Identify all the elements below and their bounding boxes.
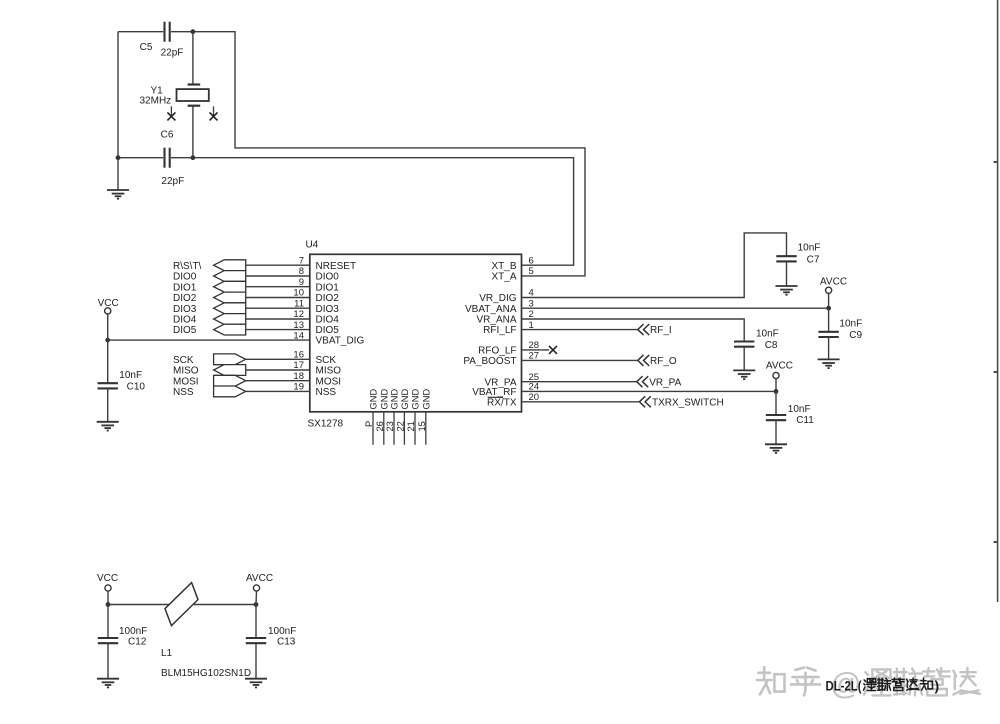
svg-text:100nF: 100nF [268,626,296,637]
svg-text:9: 9 [299,277,304,288]
connector chevron RF_O [638,355,649,366]
svg-text:C7: C7 [807,254,820,265]
svg-text:21: 21 [406,421,416,431]
sheet title cjk char 3 [892,678,904,691]
svg-text:U4: U4 [306,240,319,251]
svg-text:10nF: 10nF [798,242,821,253]
node VCC junction [105,338,110,343]
svg-text:15: 15 [417,421,427,431]
wire to U4 pin 8 [246,275,310,277]
wire C10 to ground [107,388,109,421]
wire to U4 pin 18 [246,380,310,382]
svg-text:RX/TX: RX/TX [487,397,517,408]
wire VCC down [107,314,109,340]
svg-text:32MHz: 32MHz [140,95,172,106]
svg-text:XT_A: XT_A [491,272,516,283]
wire net RFI_LF [522,329,638,331]
wire net VR_DIG to C7 [522,233,787,298]
svg-text:MISO: MISO [173,366,199,377]
power symbol VCC [105,308,111,314]
svg-text:7: 7 [299,255,304,266]
power symbol AVCC near C9 [826,287,832,293]
svg-text:GND: GND [390,389,400,410]
svg-text:AVCC: AVCC [766,360,793,371]
svg-text:): ) [935,678,940,694]
svg-text:C8: C8 [765,340,778,351]
svg-text:19: 19 [293,382,304,393]
svg-text:C11: C11 [796,415,814,426]
wire U4 bottom GND pin 26 [383,412,385,445]
node crystal-bottom junction [191,155,196,160]
wire to U4 pin 11 [246,307,310,309]
svg-text:AVCC: AVCC [246,573,273,584]
wire net RX/TX [522,401,640,403]
svg-text:C10: C10 [127,381,146,392]
svg-text:GND: GND [411,389,421,410]
svg-text:BLM15HG102SN1D: BLM15HG102SN1D [161,668,251,679]
svg-text:DIO4: DIO4 [173,315,197,326]
watermark char zhi2 [923,668,950,695]
svg-text:SCK: SCK [316,355,337,366]
wire to U4 pin 19 [246,390,310,392]
connector flag MOSI [214,375,246,386]
watermark char hu [791,668,820,696]
node crystal-top junction [191,29,196,34]
svg-text:C5: C5 [140,42,153,53]
svg-text:10nF: 10nF [756,329,779,340]
svg-text:DIO0: DIO0 [173,272,197,283]
overline on RX/ of pin 20 [488,396,503,398]
connector flag DIO0 [214,271,246,282]
svg-text:MISO: MISO [316,366,342,377]
wire VBAT_DIG pin 14 [108,339,310,341]
ground of C12 [97,679,119,688]
capacitor C12 [98,638,118,643]
svg-text:RFI_LF: RFI_LF [483,325,516,336]
wire C5 right to node [171,31,193,33]
svg-text:RF_I: RF_I [650,325,672,336]
svg-text:DIO1: DIO1 [316,282,340,293]
ground of crystal block [107,190,129,199]
connector flag DIO1 [214,281,246,292]
wire C7 to ground [786,261,788,286]
crystal Y1 [177,85,209,106]
connector chevron RF_I [638,324,649,335]
wire U4 bottom GND pin 21 [414,412,416,445]
svg-text:NRESET: NRESET [316,261,357,272]
svg-text:C6: C6 [161,130,174,141]
wire net VR_PA [522,381,637,383]
wire junction to C9 [828,308,830,332]
watermark char shen [864,669,892,695]
connector chevron VR_PA [637,376,648,387]
capacitor C10 [98,383,118,388]
wire net PA_BOOST [522,359,638,361]
node VBAT_RF junction [774,389,779,394]
wire U4 bottom GND pin 15 [425,412,427,445]
svg-text:TXRX_SWITCH: TXRX_SWITCH [652,397,724,408]
wire U4 bottom GND pin 23 [393,412,395,445]
sheet title cjk char 2 [878,678,891,690]
svg-text:11: 11 [294,298,304,309]
svg-text:10nF: 10nF [119,370,142,381]
connector flag DIO4 [214,314,246,325]
svg-text:SX1278: SX1278 [308,419,344,430]
connector chevron TXRX_SWITCH [639,396,650,407]
svg-text:DL-2L(: DL-2L( [826,678,862,694]
wire crystal bottom lead [192,106,194,158]
wire crystal case pin 3 [170,106,172,116]
ferrite bead L1 [165,583,198,626]
svg-text:6: 6 [529,255,534,266]
svg-text:L1: L1 [161,648,173,659]
svg-text:26: 26 [375,421,385,431]
svg-text:DIO2: DIO2 [173,293,197,304]
node AVCC bottom junction [254,602,259,607]
watermark char zhi [757,667,785,695]
wire C9 to ground [828,337,830,359]
wire to U4 pin 17 [246,369,310,371]
wire AVCC bottom down [255,591,258,604]
svg-text:10: 10 [293,288,304,299]
svg-text:XT_B: XT_B [491,261,516,272]
svg-text:GND: GND [400,389,410,410]
svg-text:VR_PA: VR_PA [649,377,681,388]
ground of C11 [765,444,787,453]
connector flag DIO3 [214,303,246,314]
wire to U4 pin 16 [246,358,310,360]
svg-text:22pF: 22pF [161,48,184,59]
connector flag SCK [214,354,246,365]
node VCC bottom junction [106,602,111,607]
connector flag DIO2 [214,292,246,303]
watermark char da [953,668,980,695]
svg-text:GND: GND [379,389,389,410]
power symbol VCC bottom [105,585,111,591]
wire to U4 pin 13 [246,329,310,331]
svg-text:18: 18 [293,371,304,382]
wire L1 to AVCC [194,604,256,606]
ground of C13 [245,679,267,688]
ground of C7 [776,286,798,295]
wire net VR_ANA to C8 [522,319,745,342]
wire C12 to ground [107,643,109,679]
wire AVCC down to VBAT_RF [775,379,777,392]
capacitor C9 [818,332,838,337]
svg-text:P: P [364,421,374,427]
wire net XT_A [193,32,585,276]
svg-text:DIO0: DIO0 [316,272,340,283]
svg-text:VBAT_DIG: VBAT_DIG [316,336,365,347]
svg-text:VBAT_ANA: VBAT_ANA [465,304,517,315]
svg-text:DIO3: DIO3 [316,304,340,315]
capacitor C5 [165,22,170,42]
no-connect X on Y1 pin 3 [167,112,175,120]
sheet border right edge [994,0,998,602]
wire to U4 pin 10 [246,297,310,299]
svg-text:DIO4: DIO4 [316,315,340,326]
svg-text:C13: C13 [277,636,296,647]
wire net XT_B [193,158,574,266]
svg-text:22pF: 22pF [161,176,184,187]
svg-text:22: 22 [395,421,405,431]
svg-text:RFO_LF: RFO_LF [478,346,516,357]
svg-text:SCK: SCK [173,355,194,366]
wire net VBAT_ANA [522,307,829,309]
svg-text:100nF: 100nF [119,626,147,637]
wire U4 bottom GND pin P [372,412,374,445]
connector flag NSS [214,386,246,397]
wire U4 pin 28 stub [522,349,550,351]
svg-text:VBAT_RF: VBAT_RF [472,387,516,398]
svg-text:NSS: NSS [316,387,337,398]
wire C8 to ground [743,347,745,371]
wire VCC to C10 [107,340,109,383]
svg-text:R\S\T\: R\S\T\ [173,261,202,272]
svg-text:MOSI: MOSI [316,376,342,387]
wire to ground of crystal block [117,158,119,190]
wire crystal case pin 4 [213,106,215,116]
node VBAT_ANA junction [826,306,831,311]
wire AVCC down to junction [828,293,830,308]
svg-text:VR_ANA: VR_ANA [476,315,516,326]
capacitor C7 [776,256,796,261]
svg-text:DIO5: DIO5 [173,325,197,336]
connector flag MISO [214,365,246,376]
sheet title cjk char 5 [920,678,932,690]
svg-text:AVCC: AVCC [820,276,847,287]
wire to U4 pin 12 [246,318,310,320]
svg-text:C9: C9 [849,330,862,341]
wire C11 to ground [775,420,777,444]
wire crystal top lead [192,32,194,84]
svg-text:13: 13 [293,320,304,331]
wire C6 right to node [171,157,193,159]
wire junction to C11 [775,391,777,415]
svg-text:8: 8 [299,266,304,277]
svg-text:17: 17 [293,360,304,371]
capacitor C8 [734,342,754,347]
svg-text:GND: GND [421,389,431,410]
capacitor C13 [246,638,266,643]
svg-text:VCC: VCC [97,573,118,584]
wire to U4 pin 9 [246,286,310,288]
ground of C10 [97,422,119,431]
node C6-left junction [116,155,121,160]
power symbol AVCC near C11 [773,372,779,378]
svg-text:DIO5: DIO5 [316,325,340,336]
no-connect X on Y1 pin 4 [210,112,218,120]
capacitor C6 [165,148,170,168]
svg-text:PA_BOOST: PA_BOOST [463,356,516,367]
wire C6 left [118,157,163,159]
no-connect X on pin 28 [549,346,557,354]
svg-text:RF_O: RF_O [650,356,677,367]
ground of C9 [818,359,840,368]
op-amp U4 SX1278 body [310,254,522,411]
wire VCC bottom down [107,591,109,604]
svg-text:C12: C12 [128,636,147,647]
connector flag DIO5 [214,324,246,335]
svg-text:DIO1: DIO1 [173,282,197,293]
svg-text:10nF: 10nF [788,404,811,415]
watermark char lian [894,669,922,696]
ground of C8 [733,370,755,379]
wire C5 left [118,31,163,33]
wire to C12 [107,605,109,639]
svg-text:DIO2: DIO2 [316,293,340,304]
svg-text:16: 16 [293,350,304,361]
wire VCC to L1 [108,604,169,606]
svg-text:5: 5 [529,266,534,277]
wire left rail of crystal [117,32,119,158]
wire U4 bottom GND pin 22 [403,412,405,445]
svg-text:MOSI: MOSI [173,376,199,387]
wire to C13 [255,605,257,639]
svg-text:12: 12 [293,309,304,320]
svg-text:10nF: 10nF [839,319,862,330]
svg-text:NSS: NSS [173,387,194,398]
sheet title cjk char 4 [907,678,919,690]
svg-text:VR_DIG: VR_DIG [479,293,516,304]
svg-text:GND: GND [369,389,379,410]
wire C13 to ground [255,643,257,679]
svg-text:23: 23 [385,421,395,431]
power symbol AVCC bottom [253,585,259,591]
sheet title cjk char 1 [864,679,877,691]
connector flag R\S\T\ [214,260,246,271]
capacitor C11 [766,415,786,420]
wire net VBAT_RF [522,390,777,392]
svg-text:DIO3: DIO3 [173,304,197,315]
wire to U4 pin 7 [246,264,310,266]
